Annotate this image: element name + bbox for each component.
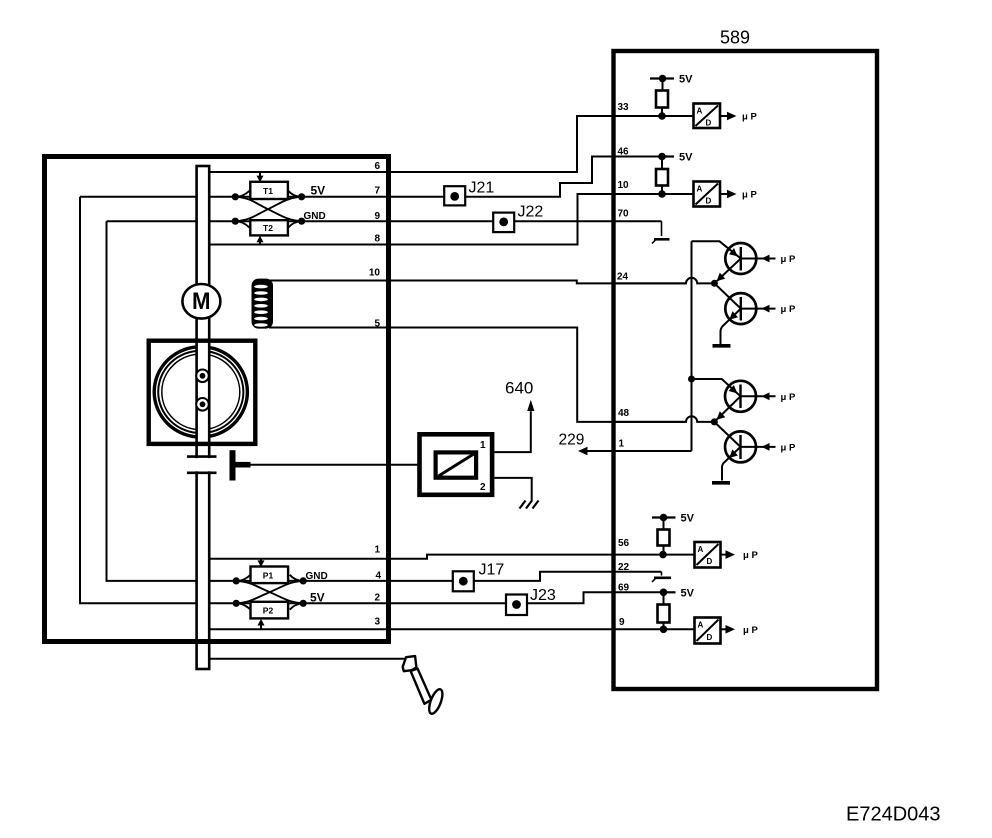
ground Q4 bbox=[712, 481, 730, 485]
supply 5V group46 bbox=[658, 152, 693, 170]
return spring coil bbox=[252, 279, 274, 329]
svg-text:μ P: μ P bbox=[743, 550, 758, 561]
svg-text:μ P: μ P bbox=[781, 304, 796, 315]
node T1 left bbox=[232, 193, 239, 200]
node T1 right bbox=[298, 193, 305, 200]
svg-text:7: 7 bbox=[374, 186, 380, 197]
svg-text:J23: J23 bbox=[530, 587, 556, 604]
potentiometer T1 bbox=[250, 182, 288, 199]
node T2 left bbox=[232, 218, 239, 225]
svg-text:48: 48 bbox=[618, 408, 630, 419]
svg-text:640: 640 bbox=[505, 379, 533, 398]
node rail tap bbox=[688, 376, 695, 383]
ground 640 hatched bbox=[520, 501, 539, 509]
svg-text:9: 9 bbox=[619, 617, 625, 628]
transistor Q3 bbox=[692, 379, 796, 422]
wire coil top to ECU pin24 bbox=[269, 281, 686, 284]
svg-text:P1: P1 bbox=[263, 570, 274, 580]
wire pedal bbox=[210, 658, 407, 660]
svg-text:5: 5 bbox=[374, 319, 380, 330]
throttle lever bbox=[230, 450, 236, 480]
connector J23 bbox=[506, 587, 556, 615]
transistor Q2 bbox=[714, 283, 796, 344]
stem group56 bbox=[663, 546, 665, 555]
wire pin3 to ECU pin9 bbox=[210, 628, 695, 630]
wire ECU pin48 with hump bbox=[615, 416, 714, 422]
limp-home actuator 640 inner box bbox=[436, 452, 477, 477]
stem group33 bbox=[661, 108, 663, 117]
throttle bore middle ring bbox=[158, 351, 243, 433]
wire pin2 5V via J23 to ECU pin69 bbox=[236, 592, 663, 603]
svg-text:5V: 5V bbox=[679, 74, 693, 86]
collector rail bbox=[691, 241, 693, 451]
svg-text:J22: J22 bbox=[518, 204, 544, 221]
limp-home actuator 640 outer box bbox=[420, 434, 493, 495]
resistor group69 bbox=[658, 605, 670, 623]
potentiometer P1 crossover curves bbox=[236, 575, 303, 610]
svg-text:D: D bbox=[706, 197, 712, 206]
svg-text:10: 10 bbox=[618, 180, 630, 191]
svg-text:A: A bbox=[697, 107, 703, 116]
wire ECU pin1 bbox=[615, 450, 692, 452]
wire ECU pin33 internal bbox=[615, 115, 694, 117]
node group56 bbox=[659, 551, 667, 559]
svg-text:μ P: μ P bbox=[743, 625, 758, 636]
svg-text:4: 4 bbox=[375, 571, 381, 582]
svg-text:μ P: μ P bbox=[781, 254, 796, 265]
svg-text:70: 70 bbox=[618, 209, 630, 220]
node P1 left bbox=[233, 577, 240, 584]
screw upper on shaft bbox=[196, 370, 209, 383]
node P1 right bbox=[300, 577, 307, 584]
throttle bore inner ring bbox=[162, 354, 240, 430]
wire pin7 5V via J21 to ECU pin46 bbox=[80, 157, 662, 197]
connector J22 bbox=[493, 204, 543, 233]
node junction A bbox=[711, 280, 718, 287]
svg-text:24: 24 bbox=[617, 272, 629, 283]
left unit box bbox=[45, 157, 389, 642]
wire pin6 to ECU pin33 bbox=[210, 116, 694, 172]
svg-text:5V: 5V bbox=[310, 591, 325, 605]
wire pin8 to ECU pin10 bbox=[210, 194, 694, 245]
node group46 bbox=[658, 190, 666, 198]
connector J17 bbox=[453, 562, 505, 592]
motor M bbox=[182, 284, 220, 319]
lever hub stub bbox=[235, 462, 251, 468]
ground Q2 bbox=[713, 344, 731, 348]
stem group46 bbox=[661, 186, 663, 195]
640 inner diagonal bbox=[439, 454, 475, 477]
wire 640 pin1 bbox=[495, 411, 531, 452]
throttle shaft bbox=[197, 166, 210, 669]
potentiometer P2 bbox=[251, 602, 289, 619]
wire pin1 to ECU pin56 bbox=[210, 555, 695, 559]
svg-text:J21: J21 bbox=[469, 179, 495, 196]
svg-text:T2: T2 bbox=[263, 223, 273, 233]
stem group69 bbox=[663, 623, 665, 630]
throttle plate box bbox=[149, 341, 256, 444]
throttle bore outer ring bbox=[154, 347, 247, 437]
supply 5V group56 bbox=[652, 513, 695, 530]
ground pin22 bbox=[652, 572, 671, 582]
supply 5V group69 bbox=[660, 587, 695, 604]
svg-text:GND: GND bbox=[306, 571, 328, 582]
svg-text:E724D043: E724D043 bbox=[846, 804, 941, 826]
svg-text:T1: T1 bbox=[263, 186, 273, 196]
wire lever to 640 bbox=[237, 464, 418, 466]
svg-text:589: 589 bbox=[720, 28, 750, 48]
svg-text:5V: 5V bbox=[311, 184, 326, 198]
connector J21 bbox=[444, 179, 494, 205]
wire rail to Q1 bbox=[692, 241, 741, 258]
node group69 bbox=[660, 626, 668, 634]
shaft bearing bar upper bbox=[187, 455, 217, 458]
wire nested 5V vertical bbox=[80, 197, 236, 604]
svg-text:2: 2 bbox=[374, 593, 380, 604]
wire nested GND vertical bbox=[107, 221, 237, 581]
ECU pin labels bbox=[617, 102, 630, 628]
svg-text:5V: 5V bbox=[681, 513, 695, 525]
svg-text:P2: P2 bbox=[263, 606, 274, 616]
A/D converter U3 bbox=[695, 542, 759, 568]
potentiometer T1 crossover curves bbox=[235, 191, 301, 228]
svg-text:D: D bbox=[707, 557, 713, 566]
ECU box 589 bbox=[614, 51, 878, 689]
A/D converter U2 bbox=[694, 182, 758, 207]
node P2 right bbox=[300, 600, 307, 607]
transistor Q1 bbox=[714, 243, 796, 283]
svg-text:D: D bbox=[707, 633, 713, 642]
svg-text:9: 9 bbox=[374, 211, 380, 222]
svg-text:μ P: μ P bbox=[781, 442, 796, 453]
wire pin4 GND via J17 to ECU pin22 bbox=[236, 572, 661, 581]
wire 229 arrow bbox=[586, 450, 613, 452]
svg-text:2: 2 bbox=[480, 482, 486, 493]
arrowhead 229 bbox=[578, 447, 588, 456]
svg-text:M: M bbox=[192, 288, 211, 315]
T1 wiper arrow bbox=[257, 172, 264, 182]
svg-text:5V: 5V bbox=[681, 587, 695, 599]
wire coil bottom to ECU pin48 bbox=[269, 328, 686, 422]
node P2 left bbox=[233, 600, 240, 607]
potentiometer P1 bbox=[251, 567, 289, 584]
svg-text:229: 229 bbox=[559, 432, 585, 449]
svg-text:J17: J17 bbox=[479, 562, 505, 579]
potentiometer T2 bbox=[250, 220, 288, 235]
supply 5V group33 bbox=[650, 74, 693, 91]
svg-text:33: 33 bbox=[618, 102, 630, 113]
svg-text:5V: 5V bbox=[679, 152, 693, 164]
shaft bearing bar lower bbox=[187, 471, 217, 474]
svg-text:1: 1 bbox=[374, 545, 380, 556]
svg-text:A: A bbox=[698, 545, 704, 554]
svg-text:1: 1 bbox=[480, 440, 486, 451]
svg-text:1: 1 bbox=[619, 439, 625, 450]
arrow to 640 harness bbox=[527, 400, 534, 411]
wire 640 pin2 bbox=[495, 478, 532, 501]
screw lower on shaft bbox=[196, 398, 209, 411]
P2 wiper arrow bbox=[258, 619, 265, 629]
shaft break gap bbox=[193, 458, 213, 471]
svg-text:A: A bbox=[698, 621, 704, 630]
node group33 bbox=[658, 112, 666, 120]
svg-text:μ P: μ P bbox=[742, 112, 757, 123]
svg-text:A: A bbox=[697, 185, 703, 194]
svg-text:46: 46 bbox=[618, 147, 630, 158]
A/D converter U4 bbox=[695, 618, 759, 644]
svg-text:6: 6 bbox=[374, 161, 380, 172]
resistor group33 bbox=[656, 91, 668, 108]
node T2 right bbox=[298, 218, 305, 225]
svg-text:56: 56 bbox=[618, 538, 630, 549]
svg-text:D: D bbox=[706, 119, 712, 128]
resistor group56 bbox=[658, 530, 670, 546]
left box pin labels bbox=[369, 161, 382, 628]
pedal bbox=[403, 656, 445, 715]
A/D converter U1 bbox=[694, 104, 758, 129]
svg-text:GND: GND bbox=[304, 211, 326, 222]
svg-text:8: 8 bbox=[374, 234, 380, 245]
T2 wiper arrow bbox=[257, 236, 264, 245]
svg-text:μ P: μ P bbox=[742, 190, 757, 201]
P1 wiper arrow bbox=[258, 559, 265, 567]
transistor Q4 bbox=[714, 422, 796, 481]
ground pin70 bbox=[652, 221, 670, 243]
wire ECU pin24 with hump bbox=[615, 278, 714, 284]
node junction B bbox=[711, 418, 718, 425]
svg-text:69: 69 bbox=[618, 583, 630, 594]
svg-text:μ P: μ P bbox=[781, 392, 796, 403]
wire pin9 GND via J22 to ECU pin70 bbox=[107, 220, 662, 222]
svg-text:10: 10 bbox=[369, 268, 381, 279]
resistor group46 bbox=[656, 169, 668, 186]
svg-text:22: 22 bbox=[618, 562, 630, 573]
svg-text:3: 3 bbox=[374, 617, 380, 628]
